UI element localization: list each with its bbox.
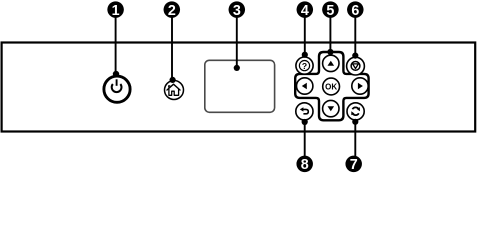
right arrow glyph [358, 83, 363, 90]
restart icon: circular arrow [352, 107, 358, 109]
svg-text:6: 6 [351, 3, 359, 19]
callout 6 [347, 1, 364, 18]
OK button [323, 78, 340, 95]
callout 2 [164, 1, 181, 18]
leader dot 1 [113, 71, 119, 77]
control panel outline [2, 43, 476, 132]
home button [165, 81, 184, 100]
callout 3 [229, 1, 246, 18]
up arrow glyph [328, 61, 335, 66]
callout 1 [107, 1, 124, 18]
home icon [167, 84, 180, 90]
leader dot 8 [302, 119, 308, 125]
down arrow glyph [328, 106, 335, 111]
leader line 1 [115, 13, 117, 75]
power glyph bar [116, 79, 118, 86]
back icon: return arrow [302, 109, 308, 113]
leader dot 3 [234, 65, 240, 71]
svg-text:?: ? [302, 61, 307, 71]
restart button [347, 103, 364, 120]
leader line 8 [304, 122, 306, 157]
left arrow glyph [302, 83, 307, 90]
callout 7 [345, 156, 362, 173]
left arrow button [297, 78, 313, 94]
leader dot 7 [352, 119, 358, 125]
svg-text:5: 5 [326, 3, 334, 19]
back button [296, 103, 313, 120]
svg-text:3: 3 [233, 3, 241, 19]
svg-text:2: 2 [168, 3, 176, 19]
svg-text:4: 4 [301, 3, 309, 19]
power glyph arc [112, 84, 122, 92]
home chimney [169, 86, 171, 88]
svg-text:1: 1 [112, 3, 120, 19]
up arrow button [323, 55, 339, 71]
leader dot 4 [302, 52, 308, 58]
power button [104, 76, 130, 102]
leader dot 6 [352, 53, 358, 59]
help button [296, 57, 313, 74]
right arrow button [352, 78, 368, 94]
d-pad cross outline [295, 52, 368, 120]
callout 4 [297, 1, 314, 18]
leader dot 2 [170, 77, 176, 83]
svg-text:7: 7 [350, 157, 358, 173]
leader line 6 [354, 13, 356, 56]
leader line 7 [354, 122, 356, 157]
down arrow button [323, 100, 339, 116]
LCD screen [205, 60, 275, 112]
leader line 2 [171, 13, 173, 80]
leader dot 5 [327, 49, 333, 55]
svg-text:8: 8 [301, 157, 309, 173]
stop icon: circle with inverted triangle [351, 62, 360, 71]
stop button [347, 57, 365, 75]
callout 5 [322, 1, 339, 18]
svg-text:OK: OK [325, 82, 337, 91]
help icon circle [299, 61, 309, 71]
leader line 3 [236, 13, 238, 68]
leader line 4 [304, 13, 306, 55]
callout 8 [296, 156, 313, 173]
leader line 5 [329, 13, 331, 52]
